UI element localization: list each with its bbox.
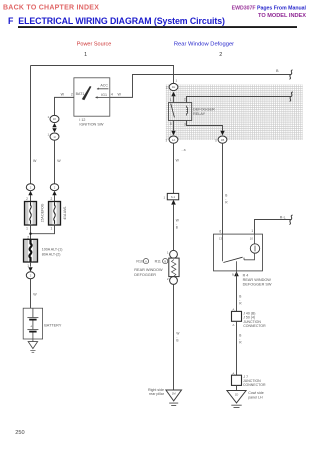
svg-text:BATTERY: BATTERY — [44, 323, 62, 327]
svg-text:Power Source: Power Source — [77, 41, 112, 47]
svg-text:BACK TO CHAPTER INDEX: BACK TO CHAPTER INDEX — [3, 5, 99, 12]
svg-text:W: W — [33, 159, 37, 163]
svg-text:1I: 1I — [53, 135, 56, 139]
battery box — [23, 308, 62, 339]
svg-text:1: 1 — [164, 196, 166, 200]
svg-text:- a: - a — [182, 148, 186, 152]
svg-text:CONNECTOR: CONNECTOR — [243, 324, 266, 328]
wire: top bus T1 to relay connector 1H — [31, 66, 174, 84]
svg-text:4: 4 — [111, 93, 113, 97]
svg-text:W: W — [57, 159, 61, 163]
svg-text:B: B — [176, 339, 178, 343]
svg-text:R-L: R-L — [280, 215, 286, 219]
svg-text:1: 1 — [84, 52, 87, 58]
svg-text:1: 1 — [176, 79, 178, 83]
svg-text:RELAY: RELAY — [193, 112, 206, 116]
title underline bar — [18, 26, 297, 28]
fuse 15A DEFOG — [25, 202, 45, 226]
svg-text:1H: 1H — [172, 85, 176, 89]
connector 2 (right fuse top) — [50, 184, 58, 191]
svg-text:R: R — [225, 201, 228, 205]
ignition switch I12 box — [74, 78, 110, 116]
connector 2 (left fuse top) — [26, 184, 34, 191]
connector 1I on BAT1 wire — [48, 133, 59, 141]
svg-text:80A ALT-(2): 80A ALT-(2) — [42, 252, 61, 256]
svg-text:1A: 1A — [172, 138, 176, 142]
svg-text:rear pillar: rear pillar — [149, 392, 165, 396]
svg-text:6: 6 — [219, 230, 221, 234]
wire: relay pin3 down, right, down to 1B — [187, 121, 223, 131]
svg-text:REAR WINDOW: REAR WINDOW — [243, 278, 272, 282]
arrow into 1A — [171, 131, 175, 136]
right ground (cowl side panel LH) — [227, 391, 264, 408]
svg-text:15A DEFOG: 15A DEFOG — [41, 203, 45, 222]
connector 1B — [215, 136, 227, 143]
svg-text:R 4: R 4 — [243, 273, 249, 277]
svg-text:1: 1 — [167, 250, 169, 254]
rear window defogger switch R4 box — [214, 234, 263, 271]
svg-text:Right side: Right side — [148, 388, 164, 392]
svg-text:Rear Window Defogger: Rear Window Defogger — [174, 41, 234, 47]
rear window defogger R10 component — [167, 250, 179, 284]
junction connector J40/J50 — [232, 308, 267, 329]
wire: switch down to junction connector J40 — [236, 271, 238, 311]
connector 1A — [166, 136, 178, 143]
connector 1K on BAT1 wire — [48, 115, 59, 123]
svg-text:40A AM1: 40A AM1 — [63, 206, 67, 220]
ignition switch blade contact — [82, 86, 91, 100]
wire: left fuse down to FL junction — [30, 225, 32, 239]
wire: relay pin5 down to 1A — [173, 121, 175, 131]
connector 1H above defogger relay — [166, 79, 178, 91]
svg-text:1: 1 — [170, 98, 172, 102]
svg-text:1: 1 — [51, 226, 53, 230]
svg-text:panel LH: panel LH — [248, 395, 263, 399]
svg-text:IG1: IG1 — [101, 93, 107, 97]
connector arrows between 1K and 1I — [52, 123, 56, 127]
svg-text:5: 5 — [170, 122, 172, 126]
svg-text:2: 2 — [219, 52, 222, 58]
svg-text:100A ALT-(1): 100A ALT-(1) — [42, 248, 63, 252]
svg-text:1: 1 — [26, 226, 28, 230]
svg-text:W: W — [118, 93, 122, 97]
defogger relay box — [169, 103, 215, 121]
arrow below B1 — [171, 200, 176, 205]
arrow into left fuse — [28, 191, 32, 195]
svg-text:W: W — [33, 293, 37, 297]
svg-text:R: R — [239, 302, 242, 306]
svg-text:R10: R10 — [136, 260, 143, 264]
ignition ACC contact line — [97, 88, 108, 90]
arrow into right fuse — [52, 191, 56, 195]
page break symbol on T2 — [289, 70, 292, 80]
wire: defogger switch IG terminal up and right to page break — [255, 220, 291, 235]
arrow into 1B — [220, 131, 224, 136]
svg-text:250: 250 — [15, 430, 24, 436]
connector 2 (battery feed) — [26, 272, 34, 279]
R10 R11 labels with pin circles — [134, 259, 167, 277]
fusible link 100A ALT — [24, 239, 63, 262]
wire: connector to battery — [30, 279, 32, 308]
arrow 1H to relay — [171, 92, 175, 97]
svg-text:2: 2 — [71, 93, 73, 97]
svg-text:W: W — [61, 93, 65, 97]
svg-text:DEFOGGER: DEFOGGER — [134, 273, 156, 277]
wire: fuse DEFOG up-feed, vertical x=30.5 — [30, 66, 32, 184]
svg-text:Cowl side: Cowl side — [248, 391, 264, 395]
svg-text:W: W — [176, 159, 180, 163]
svg-text:DEFOGGER SW: DEFOGGER SW — [243, 283, 272, 287]
wire: J7 down to right ground — [236, 385, 238, 390]
svg-text:2: 2 — [26, 197, 28, 201]
svg-text:IGNITION SW: IGNITION SW — [79, 123, 103, 127]
svg-text:A: A — [232, 323, 234, 327]
svg-text:B: B — [176, 226, 178, 230]
svg-text:1K: 1K — [53, 117, 57, 121]
wire: 1A down to connector B1 — [173, 143, 175, 193]
svg-text:2: 2 — [51, 197, 53, 201]
svg-text:CONNECTOR: CONNECTOR — [243, 383, 266, 387]
wire: ignition BAT1 feed to left column x=55 — [55, 97, 74, 115]
svg-text:DEFOGGER: DEFOGGER — [193, 107, 215, 111]
svg-text:1B: 1B — [221, 138, 225, 142]
page break symbol on switch feed — [289, 215, 292, 225]
svg-text:B: B — [276, 69, 279, 73]
svg-text:R: R — [239, 341, 242, 345]
svg-text:1: 1 — [48, 133, 50, 137]
svg-text:B: B — [164, 259, 166, 263]
wire: 1I down to fuse connector — [54, 140, 56, 183]
left ground (right side rear pillar) — [148, 388, 181, 406]
junction node dot — [29, 233, 31, 235]
svg-text:1M: 1M — [172, 392, 177, 396]
battery ground — [28, 339, 37, 352]
svg-text:9: 9 — [232, 273, 234, 277]
wire: ignition IG1 riser and top bus T2 to page break — [109, 75, 290, 98]
ignition IG1 contact line — [96, 96, 110, 98]
halftone shading region around defogger relay — [166, 85, 303, 141]
svg-text:ACC: ACC — [100, 83, 108, 87]
svg-text:2: 2 — [167, 277, 169, 281]
svg-text:2: 2 — [184, 97, 186, 101]
svg-text:BAT1: BAT1 — [76, 92, 85, 96]
svg-text:TO MODEL INDEX: TO MODEL INDEX — [258, 13, 306, 19]
svg-text:1D: 1D — [235, 392, 239, 396]
wire: right fuse down and left to junction — [31, 225, 55, 234]
svg-text:6-1: 6-1 — [171, 195, 175, 199]
svg-text:A: A — [145, 259, 147, 263]
arrow out of FL — [28, 267, 32, 271]
svg-text:13: 13 — [219, 236, 223, 240]
svg-text:I 12: I 12 — [79, 118, 85, 122]
svg-text:FELECTRICAL WIRING DIAGRAM (Sy: FELECTRICAL WIRING DIAGRAM (System Circu… — [8, 16, 225, 26]
arrow below switch — [234, 271, 239, 276]
svg-text:EWD307F Pages From Manual: EWD307F Pages From Manual — [232, 6, 307, 12]
wire: J40 down to J7 — [236, 321, 238, 375]
wire: R10 down to left ground — [173, 284, 175, 390]
svg-text:1: 1 — [48, 115, 50, 119]
svg-text:3: 3 — [184, 122, 186, 126]
fuse 40A AM1 — [49, 202, 68, 226]
svg-text:10: 10 — [250, 236, 254, 240]
wire: B1 down to R10 — [173, 204, 175, 250]
junction connector J7 — [232, 371, 266, 387]
svg-text:R11: R11 — [155, 260, 161, 264]
svg-text:1: 1 — [251, 229, 253, 233]
page break symbol on T3 — [290, 92, 293, 102]
svg-text:REAR WINDOW: REAR WINDOW — [134, 268, 163, 272]
in-line connector B1 — [164, 193, 179, 199]
wire: relay pin2 riser and bus T3 to page break — [187, 97, 292, 103]
wire: 1B down to defogger switch — [222, 143, 224, 234]
